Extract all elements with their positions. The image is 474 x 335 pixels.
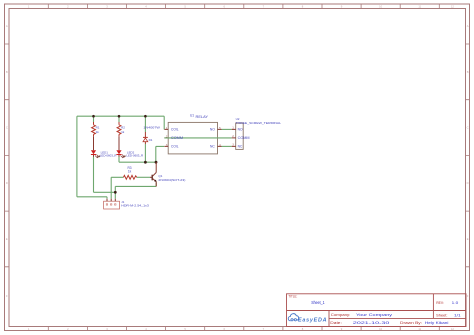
company value: [356, 313, 392, 317]
svg-text:1N4007W: 1N4007W: [143, 126, 160, 130]
svg-text:B: B: [467, 70, 469, 74]
svg-text:Sheet_1: Sheet_1: [311, 300, 325, 305]
title block outline: [287, 294, 467, 327]
frame row letters: [6, 24, 469, 298]
svg-text:Sheet:: Sheet:: [436, 313, 447, 317]
transistor Q1: [150, 162, 157, 186]
frame tick marks top: [48, 4, 439, 9]
diode D1 ref label: [149, 138, 153, 142]
svg-text:1k: 1k: [128, 169, 132, 173]
junction node collector bus: [155, 161, 158, 164]
wire collector bus: [119, 161, 156, 163]
svg-text:LED-0603_R: LED-0603_R: [100, 154, 117, 158]
svg-text:Your Company: Your Company: [356, 313, 392, 317]
svg-text:D: D: [6, 181, 8, 185]
svg-text:EasyEDA: EasyEDA: [298, 317, 327, 323]
sheet label: [436, 313, 447, 317]
wire relay NC to U2: [222, 145, 232, 147]
wire D1 branch top: [144, 116, 146, 132]
header J1: [104, 199, 120, 209]
rev value: [452, 300, 459, 305]
header J1 ref label: [121, 200, 124, 204]
LED LED1: [91, 150, 101, 158]
junction node emitter pin3: [114, 191, 117, 194]
resistor R3 labels: [127, 166, 131, 173]
wire D1 anode down: [144, 144, 146, 162]
company label: [331, 313, 351, 317]
svg-text:COIL: COIL: [171, 145, 179, 149]
LED LED2: [116, 150, 126, 158]
drawn-by value: [425, 321, 449, 325]
frame tick marks bottom: [48, 327, 439, 331]
relay U1 value label: [196, 115, 210, 119]
svg-text:U1: U1: [190, 114, 194, 118]
wire emitter to header pin3: [115, 183, 156, 199]
svg-text:1k: 1k: [121, 130, 125, 134]
svg-text:10: 10: [379, 327, 382, 331]
svg-text:NO: NO: [210, 128, 215, 132]
resistor R1 labels: [96, 125, 100, 134]
svg-text:COMM: COMM: [171, 136, 183, 140]
svg-text:2021-10-30: 2021-10-30: [353, 321, 390, 325]
svg-text:1.0: 1.0: [452, 300, 459, 305]
diode D1: [143, 132, 148, 144]
date value: [353, 321, 390, 325]
wire R3 right to base: [137, 176, 150, 178]
svg-text:R2: R2: [121, 125, 125, 129]
EasyEDA logo cloud: [288, 314, 298, 321]
EasyEDA logo text: [298, 317, 327, 323]
terminal U2 ref label: [236, 117, 240, 121]
svg-text:A: A: [467, 24, 469, 28]
terminal U2 pin numbers: [232, 127, 234, 147]
wire COMM through relay to U2: [164, 137, 231, 139]
wire R2 branch top: [118, 116, 120, 122]
wire R3 left to header pin2: [111, 177, 123, 199]
wire VCC top rail: [77, 115, 164, 117]
terminal U2 pin names: [238, 128, 250, 149]
frame tick marks left: [5, 44, 10, 267]
svg-text:B: B: [6, 70, 8, 74]
sheet value: [454, 313, 461, 317]
junction node top R2: [118, 115, 121, 118]
svg-text:11: 11: [418, 327, 421, 331]
date label: [330, 321, 342, 325]
svg-text:NC: NC: [210, 145, 215, 149]
svg-text:1k: 1k: [96, 130, 100, 134]
svg-text:1/1: 1/1: [454, 313, 461, 317]
LED LED1 labels: [100, 151, 117, 158]
wire R1 branch top: [93, 116, 95, 122]
svg-text:Hely Kikani: Hely Kikani: [425, 321, 449, 325]
relay U1 ref label: [190, 114, 194, 118]
terminal U2 value label: [236, 121, 282, 125]
relay U1 pin numbers: [166, 127, 221, 147]
junction node D1 anode bus: [144, 161, 147, 164]
svg-text:E: E: [467, 237, 469, 241]
frame tick marks right: [466, 44, 470, 267]
relay U1: [164, 122, 221, 153]
resistor R2: [117, 122, 121, 136]
wire to header pin1: [77, 197, 107, 199]
svg-text:R1: R1: [96, 125, 100, 129]
svg-text:Date:: Date:: [330, 321, 342, 325]
resistor R2 labels: [121, 125, 125, 134]
svg-text:REV:: REV:: [436, 301, 444, 305]
svg-text:12: 12: [451, 327, 454, 331]
svg-text:11: 11: [418, 5, 421, 9]
svg-text:COIL: COIL: [171, 128, 179, 132]
diode D1 value label: [143, 126, 160, 130]
svg-text:10: 10: [379, 5, 382, 9]
drawn-by label: [400, 321, 422, 325]
svg-text:12: 12: [451, 5, 454, 9]
svg-text:D: D: [467, 181, 469, 185]
junction node top D1: [144, 115, 147, 118]
svg-text:A: A: [6, 24, 8, 28]
resistor R1: [92, 122, 96, 136]
rev label: [436, 301, 444, 305]
wire relay coil pin3 to collector node: [156, 146, 164, 162]
wire R1 to LED1: [93, 136, 95, 150]
svg-text:E: E: [6, 237, 8, 241]
wire R2 to LED2: [118, 136, 120, 150]
title value Sheet_1: [311, 300, 325, 305]
svg-text:D1: D1: [149, 138, 153, 142]
transistor Q1 labels: [158, 174, 185, 182]
svg-text:NC: NC: [238, 145, 243, 149]
svg-text:NO: NO: [238, 128, 243, 132]
svg-text:TITLE:: TITLE:: [288, 295, 297, 299]
svg-text:COMM: COMM: [238, 136, 250, 140]
wire LED1 cathode down: [93, 157, 95, 193]
wire top to relay coil pin1: [163, 116, 165, 129]
svg-text:THREE_SCREW_TERMINAL: THREE_SCREW_TERMINAL: [236, 121, 282, 125]
wire LED2 cathode down: [118, 157, 120, 163]
LED LED2 labels: [126, 151, 143, 158]
svg-text:LED-0603_R: LED-0603_R: [126, 154, 143, 158]
wire LED1 to header pin3 node: [94, 191, 116, 193]
junction node top R1: [92, 115, 95, 118]
svg-text:Company:: Company:: [331, 313, 351, 317]
header J1 value label: [121, 204, 149, 208]
wire left rail down: [76, 116, 78, 197]
svg-text:C: C: [467, 126, 469, 130]
resistor R3: [123, 175, 136, 179]
svg-text:2N3904(SOT-23): 2N3904(SOT-23): [158, 178, 185, 182]
terminal U2: [232, 123, 244, 149]
relay U1 pin names: [171, 128, 215, 149]
svg-text:RELAY: RELAY: [196, 115, 210, 119]
svg-text:Drawn By:: Drawn By:: [400, 321, 422, 325]
svg-text:C: C: [6, 126, 8, 130]
svg-text:HDR-M-2.54_1x3: HDR-M-2.54_1x3: [121, 204, 149, 208]
wire relay NO to U2: [222, 128, 232, 130]
title label: [288, 295, 297, 299]
